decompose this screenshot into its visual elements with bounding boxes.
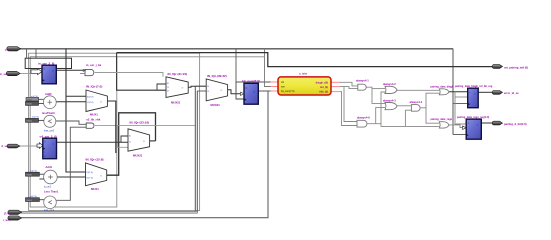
svg-text:always4-2: always4-2 bbox=[383, 82, 396, 86]
svg-text:a_cm1: a_cm1 bbox=[44, 185, 52, 188]
wire W1 tick left bbox=[26, 49, 28, 59]
svg-text:O: O bbox=[100, 102, 102, 104]
svg-text:D: D bbox=[246, 87, 248, 90]
svg-text:md_(b): md_(b) bbox=[320, 86, 328, 89]
svg-text:less_cm0: less_cm0 bbox=[44, 130, 55, 133]
svg-text:c_trie: c_trie bbox=[299, 72, 307, 76]
yellow pins left bbox=[271, 82, 341, 92]
svg-text:lessThan0: lessThan0 bbox=[42, 111, 55, 115]
and gate always4-4 bbox=[411, 105, 420, 112]
register ref_bit_reg bbox=[468, 88, 479, 108]
wire a44 to g2 bbox=[426, 108, 439, 123]
register pairing_data_reg bbox=[466, 119, 481, 139]
wire mux3 out stub bbox=[150, 140, 156, 142]
wire a43 out bbox=[397, 105, 411, 107]
svg-text:set_pairing_intf (0): set_pairing_intf (0) bbox=[504, 65, 528, 69]
wire a44 in2 bbox=[405, 110, 411, 126]
svg-text:dough_t(0): dough_t(0) bbox=[316, 81, 329, 84]
svg-text:always4-1: always4-1 bbox=[356, 78, 369, 82]
svg-text:in_ser_j_ka: in_ser_j_ka bbox=[86, 63, 102, 67]
svg-text:less_cm1: less_cm1 bbox=[44, 209, 55, 212]
svg-text:pairing_data_regn: pairing_data_regn bbox=[431, 118, 453, 121]
wire and2 out bbox=[95, 125, 195, 127]
wire d_ser port bbox=[19, 145, 37, 147]
net box D bbox=[25, 58, 71, 68]
wire mux1 out down bbox=[107, 101, 115, 153]
wire add0 out bbox=[56, 101, 86, 103]
output port pairing_d_bit bbox=[492, 121, 502, 125]
svg-text:IN_IQr-(15:8): IN_IQr-(15:8) bbox=[86, 158, 104, 162]
wire mux21b out to reg3 bbox=[228, 90, 241, 94]
adder Add1 bbox=[44, 170, 58, 184]
svg-text:clk: clk bbox=[5, 48, 9, 52]
svg-text:in_ser_2_l0: in_ser_2_l0 bbox=[38, 61, 55, 65]
svg-text:bit_num(7:0): bit_num(7:0) bbox=[242, 79, 260, 83]
wire g1 to reg5 bbox=[455, 92, 466, 124]
svg-text:O: O bbox=[143, 141, 145, 143]
svg-text:MUX1: MUX1 bbox=[91, 187, 99, 191]
wire reg2 Q bbox=[57, 141, 129, 143]
svg-text:Q: Q bbox=[52, 143, 54, 146]
svg-text:8'b01: 8'b01 bbox=[27, 200, 33, 202]
svg-text:o4_ser_2_l0: o4_ser_2_l0 bbox=[40, 134, 58, 138]
adder Add0 bbox=[43, 96, 56, 109]
wire a41 to a42 bbox=[372, 88, 385, 90]
wire reg4 d2 bbox=[455, 96, 468, 98]
wire and2 branch to mux3 bbox=[117, 126, 128, 148]
svg-text:8'b00: 8'b00 bbox=[27, 174, 33, 176]
svg-text:O: O bbox=[182, 88, 184, 90]
constant add0 b bbox=[26, 101, 39, 105]
wire add1 out bbox=[57, 176, 85, 178]
wide wire into reg2 bbox=[37, 143, 43, 149]
svg-text:Q: Q bbox=[52, 70, 54, 73]
svg-text:in1(7:0): in1(7:0) bbox=[30, 170, 37, 172]
wire yellow q2 to a41 in2 bbox=[344, 87, 358, 89]
svg-text:in2(7:0): in2(7:0) bbox=[32, 117, 39, 119]
svg-text:d_ser: d_ser bbox=[1, 144, 8, 148]
svg-text:Q: Q bbox=[474, 94, 476, 96]
svg-text:in1(7:0): in1(7:0) bbox=[31, 96, 38, 98]
RAM block c_trie bbox=[278, 77, 331, 95]
comparator lessThan0 bbox=[44, 115, 56, 127]
svg-text:MUX21: MUX21 bbox=[171, 101, 181, 105]
wire mux21a out bbox=[188, 86, 206, 87]
wire g1 out bbox=[447, 91, 467, 93]
svg-text:0001: 0001 bbox=[27, 99, 33, 101]
wire a46 to g2 bbox=[381, 124, 439, 127]
and gate o2_lik_rfrk bbox=[86, 123, 94, 128]
svg-text:pairing_data_blagh_ref_bit_reg: pairing_data_blagh_ref_bit_reg bbox=[455, 85, 493, 88]
wide wire into reg1 bbox=[31, 69, 42, 75]
svg-text:Add1: Add1 bbox=[46, 165, 53, 169]
svg-text:MUX1: MUX1 bbox=[90, 113, 98, 117]
svg-text:O: O bbox=[100, 176, 102, 178]
wire W1 tick 2 bbox=[35, 49, 37, 59]
wire in_ser port bbox=[20, 73, 31, 75]
wire clk stub reg5 bbox=[453, 134, 466, 136]
hierarchy box A bbox=[29, 53, 200, 210]
wire V1 to MUX21a bbox=[117, 53, 166, 91]
output port set_pairing_intf bbox=[492, 65, 502, 69]
wire reg3 clk bbox=[236, 82, 244, 99]
bus riser 1 bbox=[194, 86, 196, 212]
wire reg5 Q bbox=[481, 122, 493, 124]
wire W1 branch to yellow clk bbox=[236, 49, 278, 82]
constant add0 a bbox=[26, 96, 39, 101]
arrow into reg3 bbox=[241, 92, 245, 95]
wire vertical x66 bbox=[66, 49, 86, 172]
or gate always4-2 bbox=[385, 86, 397, 93]
svg-text:always4-4: always4-4 bbox=[410, 100, 423, 104]
wire a44 out bbox=[421, 93, 440, 108]
svg-text:pairing_d_bit(1:0): pairing_d_bit(1:0) bbox=[504, 122, 527, 126]
wire a41 out bbox=[366, 87, 385, 103]
input port clk_in bbox=[7, 47, 21, 51]
wire mux2 out arch bbox=[107, 113, 156, 175]
wire W1 branch to output regs clk bbox=[452, 49, 454, 135]
constant add1 a bbox=[26, 170, 40, 176]
wire add1 in stubs bbox=[39, 174, 44, 179]
svg-text:IN_IQr-(23:16): IN_IQr-(23:16) bbox=[130, 120, 150, 124]
svg-text:D: D bbox=[44, 141, 46, 144]
wire reg2 Q to mux3 in0 bbox=[121, 136, 128, 142]
wire W1 branch to yellow wre bbox=[265, 49, 279, 87]
wire reg1 Q bbox=[56, 69, 83, 71]
svg-text:IN_IQr-(7:0): IN_IQr-(7:0) bbox=[86, 85, 102, 89]
svg-text:in2(7:0): in2(7:0) bbox=[30, 196, 37, 198]
output port error_id_se bbox=[492, 91, 502, 95]
mux MUX21 b bbox=[206, 79, 227, 101]
svg-text:pairing_data_blagh: pairing_data_blagh bbox=[431, 86, 454, 89]
svg-text:O: O bbox=[221, 90, 223, 92]
wire yellow q2 down to a46 bbox=[340, 87, 357, 122]
svg-text:8'b01: 8'b01 bbox=[27, 121, 33, 123]
input port in_ser bbox=[6, 71, 20, 75]
or gate pairing_data_r bbox=[439, 122, 449, 128]
wire a43 in2 bbox=[376, 108, 385, 124]
svg-text:title_(b): title_(b) bbox=[319, 90, 328, 93]
arrow into reg5 bbox=[463, 126, 467, 129]
svg-text:MUX21: MUX21 bbox=[211, 103, 221, 107]
mux MUX21 row3 bbox=[128, 129, 150, 151]
and gate always4-6 bbox=[357, 120, 367, 127]
wire yellow q1 to a41 bbox=[340, 82, 358, 86]
svg-text:r_len: r_len bbox=[3, 218, 10, 222]
or gate pairing_data_b bbox=[439, 89, 449, 95]
svg-text:pairing_data_regn_reg(1:0): pairing_data_regn_reg(1:0) bbox=[457, 116, 489, 119]
wire clk stub reg4 bbox=[453, 103, 468, 105]
register in_ser_2_l0 bbox=[42, 65, 56, 84]
svg-text:MUX21: MUX21 bbox=[133, 154, 143, 158]
wire clk net W1 bbox=[20, 48, 453, 50]
wire mux21a in0 jog bbox=[157, 84, 166, 90]
wire add0 in stubs bbox=[39, 99, 44, 103]
svg-text:IN_IQr-(31:24): IN_IQr-(31:24) bbox=[168, 72, 188, 76]
svg-text:in_ser: in_ser bbox=[0, 72, 8, 76]
input port r_len bbox=[8, 216, 22, 220]
wire yellow q3 down bbox=[340, 92, 357, 126]
mux MUX21 a bbox=[166, 77, 188, 98]
mux MUX1 row1 bbox=[86, 90, 107, 112]
svg-text:I1(7:0): I1(7:0) bbox=[87, 102, 94, 104]
wire r_len riser bbox=[21, 91, 268, 218]
svg-text:IN_IQr-(39:32): IN_IQr-(39:32) bbox=[207, 74, 227, 78]
and gate always4-1 bbox=[358, 84, 366, 90]
and gate in_ser_i_ka bbox=[80, 69, 94, 75]
constant comp1 bbox=[26, 196, 40, 202]
svg-text:always4-3: always4-3 bbox=[383, 98, 396, 102]
input port r_dat bbox=[8, 210, 22, 214]
wire comp0 out bbox=[56, 121, 86, 124]
input port d_ser bbox=[7, 144, 20, 148]
svg-text:bit_num(7:0): bit_num(7:0) bbox=[281, 90, 295, 93]
wire a42 out bbox=[397, 89, 439, 91]
wire comp1 in stub bbox=[39, 199, 44, 201]
hierarchy box C bbox=[30, 57, 117, 207]
svg-text:I0(7:0): I0(7:0) bbox=[87, 96, 94, 98]
svg-text:(7:4): (7:4) bbox=[4, 212, 10, 216]
register bit_num bbox=[244, 83, 258, 104]
wire a46 out bbox=[368, 92, 386, 124]
svg-text:8'b00: 8'b00 bbox=[27, 104, 33, 106]
wire g2 out bbox=[447, 125, 462, 128]
wire reg4 Q bbox=[478, 91, 494, 93]
or gate always4-3 bbox=[385, 103, 397, 110]
svg-text:D: D bbox=[44, 68, 46, 71]
svg-text:always4-6: always4-6 bbox=[357, 116, 370, 120]
bus riser 2 bbox=[196, 91, 198, 212]
bus r_dat bbox=[21, 211, 197, 213]
svg-text:Q: Q bbox=[253, 91, 255, 94]
wire comp0 in stub bbox=[39, 119, 45, 121]
wire comp1 out up bbox=[56, 127, 86, 200]
wire bus to mux21b in1 bbox=[195, 85, 206, 87]
svg-text:Q: Q bbox=[477, 125, 479, 127]
svg-text:o2_lik_rfrk: o2_lik_rfrk bbox=[86, 117, 101, 121]
wire and1 out bbox=[95, 73, 163, 77]
svg-text:wre: wre bbox=[281, 86, 286, 89]
register o4_ser_2_l0 bbox=[43, 138, 57, 159]
svg-text:I1(7:0): I1(7:0) bbox=[87, 178, 94, 180]
hierarchy box E top bbox=[117, 56, 265, 58]
svg-text:error_id_se: error_id_se bbox=[504, 91, 519, 95]
svg-text:Add0: Add0 bbox=[45, 92, 52, 96]
mux MUX1 row2 bbox=[86, 163, 107, 186]
wire bus to mux21b in2 bbox=[197, 90, 206, 92]
svg-text:Less Than1: Less Than1 bbox=[44, 190, 59, 194]
svg-text:I0(7:0): I0(7:0) bbox=[87, 172, 94, 174]
constant comp0 bbox=[26, 117, 40, 123]
comparator lessThan1 bbox=[44, 196, 57, 209]
wire W2 to set_pairing_intf bbox=[117, 53, 494, 67]
wire reg1 Q to mux1 in0 bbox=[66, 95, 86, 97]
wire reg3 Q to yellow bbox=[258, 90, 270, 92]
